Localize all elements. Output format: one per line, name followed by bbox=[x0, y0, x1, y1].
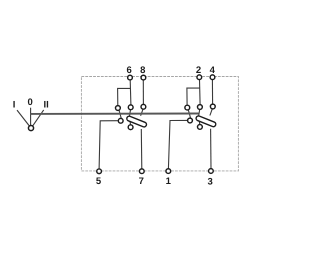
wire terminal 8 to right contact bbox=[142, 80, 144, 104]
wire right contact to rocker bbox=[141, 109, 143, 115]
actuator long link wire bbox=[31, 113, 199, 115]
wire left contact to node A2 bbox=[188, 110, 190, 118]
svg-text:0: 0 bbox=[27, 97, 32, 108]
terminal 1 bbox=[166, 169, 171, 174]
lever position 0 line bbox=[30, 108, 32, 126]
terminal 2 bbox=[197, 75, 202, 80]
node A2 contact bbox=[188, 118, 193, 123]
svg-text:7: 7 bbox=[139, 176, 144, 187]
svg-text:1: 1 bbox=[166, 176, 172, 187]
contact left pole right bbox=[141, 104, 146, 109]
contact left pole left bbox=[116, 106, 121, 111]
wire middle contact to node B2 bbox=[199, 110, 200, 126]
svg-text:2: 2 bbox=[196, 65, 201, 76]
wire terminal 4 to right contact bbox=[211, 80, 213, 104]
lever pivot bbox=[28, 126, 33, 131]
lever position I line bbox=[17, 110, 29, 126]
rocker bridge right pole bbox=[195, 115, 216, 127]
svg-text:3: 3 bbox=[207, 176, 212, 187]
contact right pole left bbox=[185, 105, 190, 110]
wire branch terminal 2 to left contact bbox=[187, 88, 200, 105]
svg-text:8: 8 bbox=[140, 65, 145, 76]
wire left contact to node A bbox=[119, 111, 121, 119]
terminal 3 bbox=[209, 169, 214, 174]
svg-text:6: 6 bbox=[127, 65, 132, 76]
wire terminal 2 to middle contact bbox=[199, 80, 202, 105]
svg-text:I: I bbox=[13, 99, 16, 110]
wire middle contact to node B bbox=[129, 110, 130, 126]
contact right pole right bbox=[210, 104, 215, 109]
svg-text:4: 4 bbox=[210, 65, 216, 76]
lever position II line bbox=[33, 110, 44, 126]
contact right pole middle bbox=[198, 105, 203, 110]
wire terminal 6 to middle contact bbox=[129, 80, 132, 105]
terminal 4 bbox=[210, 75, 215, 80]
terminal 8 bbox=[141, 75, 146, 80]
wire node A to terminal 5 bbox=[99, 121, 118, 169]
wire node A2 to terminal 1 bbox=[168, 120, 187, 169]
terminal 5 bbox=[97, 169, 102, 174]
switch body dashed enclosure bbox=[81, 77, 238, 171]
terminal 7 bbox=[139, 169, 144, 174]
wire rocker to terminal 7 bbox=[140, 129, 143, 169]
contact left pole middle bbox=[128, 105, 133, 110]
rocker bridge left pole bbox=[126, 115, 147, 127]
terminal 6 bbox=[128, 75, 133, 80]
svg-text:5: 5 bbox=[96, 176, 102, 187]
node A contact bbox=[118, 118, 123, 123]
node B contact bbox=[128, 125, 133, 130]
svg-text:II: II bbox=[44, 100, 49, 111]
wire rocker to terminal 3 bbox=[210, 129, 212, 169]
wire branch terminal 6 to left contact bbox=[118, 88, 131, 105]
node B2 contact bbox=[198, 125, 203, 130]
wire right contact to rocker bbox=[210, 109, 212, 115]
